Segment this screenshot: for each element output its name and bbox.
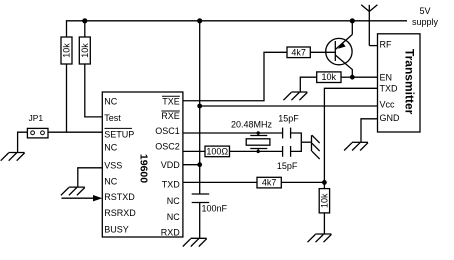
svg-text:100nF: 100nF	[202, 204, 228, 214]
svg-text:NC: NC	[104, 96, 117, 106]
svg-text:SETUP: SETUP	[104, 129, 134, 139]
svg-text:15pF: 15pF	[278, 114, 299, 124]
svg-text:RXE: RXE	[161, 111, 180, 121]
svg-text:Vcc: Vcc	[380, 100, 396, 110]
svg-text:NC: NC	[104, 177, 117, 187]
svg-text:NC: NC	[167, 196, 180, 206]
svg-text:RSRXD: RSRXD	[104, 208, 136, 218]
svg-text:10k: 10k	[322, 72, 337, 82]
svg-text:NC: NC	[167, 212, 180, 222]
svg-text:15pF: 15pF	[277, 161, 298, 171]
svg-text:EN: EN	[380, 72, 393, 82]
svg-text:10k: 10k	[62, 43, 72, 58]
svg-text:5V: 5V	[419, 6, 430, 16]
svg-text:OSC2: OSC2	[155, 141, 180, 151]
svg-text:Test: Test	[104, 113, 121, 123]
svg-text:BUSY: BUSY	[104, 225, 129, 235]
svg-text:TXD: TXD	[380, 84, 399, 94]
svg-text:19600: 19600	[138, 154, 150, 183]
svg-text:RF: RF	[380, 39, 392, 49]
svg-text:NC: NC	[104, 143, 117, 153]
svg-text:TXD: TXD	[162, 179, 181, 189]
svg-text:4k7: 4k7	[262, 178, 277, 188]
svg-text:OSC1: OSC1	[155, 126, 180, 136]
svg-text:100Ω: 100Ω	[206, 146, 228, 156]
svg-text:10k: 10k	[80, 43, 90, 58]
svg-text:TXE: TXE	[162, 96, 180, 106]
svg-text:supply: supply	[412, 17, 439, 27]
svg-text:JP1: JP1	[29, 113, 44, 123]
svg-text:10k: 10k	[319, 193, 329, 208]
svg-text:20.48MHz: 20.48MHz	[231, 120, 273, 130]
svg-text:RSTXD: RSTXD	[104, 192, 135, 202]
svg-text:Transmitter: Transmitter	[402, 49, 416, 115]
svg-text:4k7: 4k7	[291, 47, 306, 57]
svg-text:GND: GND	[380, 113, 401, 123]
svg-text:VSS: VSS	[104, 160, 122, 170]
svg-text:RXD: RXD	[161, 227, 181, 237]
svg-text:VDD: VDD	[161, 160, 181, 170]
